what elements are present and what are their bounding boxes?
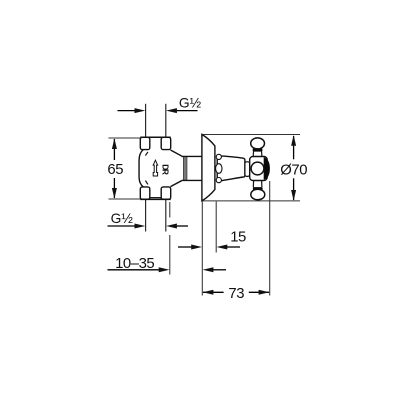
extension line wall face (201, 202, 203, 296)
dimension G1/2 bottom (108, 211, 189, 228)
svg-text:G½: G½ (111, 211, 134, 226)
pipe bottom right line (165, 199, 167, 231)
extension line dia70 top (203, 134, 300, 136)
collar ring (245, 162, 250, 177)
bottom neck band (black) (253, 187, 263, 190)
stem bottom edge (181, 179, 202, 181)
top port left tab (140, 137, 150, 149)
body chamfer tick top (145, 152, 148, 156)
top ball (251, 138, 265, 149)
escutcheon (202, 134, 215, 201)
svg-text:73: 73 (228, 286, 244, 302)
bottom port right tab (161, 187, 171, 199)
svg-text:10–35: 10–35 (115, 256, 154, 272)
body chamfer tick bottom (145, 181, 148, 185)
dimension 73 (203, 286, 270, 302)
dimension G1/2 top (118, 95, 202, 113)
pipe bottom left line (145, 199, 147, 231)
body right bottom slant (171, 180, 182, 186)
flow arrow inside body (153, 160, 157, 176)
bottom port bottom edge (140, 198, 170, 200)
stem top edge (181, 155, 202, 157)
extension line 73 right (269, 181, 271, 296)
bottom neck sides (252, 181, 254, 188)
dimension 65 (107, 138, 123, 199)
bottom ball (251, 189, 265, 200)
extension line 65 bottom (109, 198, 141, 200)
top neck band (black) (253, 148, 263, 152)
cone screw top (216, 154, 221, 159)
handle cone (217, 156, 245, 181)
extension line 65 top (109, 137, 141, 139)
dimension 15 (178, 230, 246, 250)
cone screw bottom (216, 178, 221, 183)
dimension dia70 (280, 135, 307, 201)
extension line 15 right (215, 202, 217, 253)
svg-text:15: 15 (230, 230, 246, 246)
svg-text:Ø70: Ø70 (280, 163, 307, 179)
dimension 10-35 (108, 256, 227, 272)
bottom port left tab (140, 187, 150, 199)
extension line 10-35 left (169, 202, 171, 275)
hub (250, 157, 268, 181)
handle front cap (black) (264, 157, 270, 179)
svg-text:65: 65 (107, 162, 123, 178)
hub circle (251, 162, 264, 175)
valve body left edge (139, 150, 143, 187)
extension line dia70 bottom (203, 200, 300, 202)
svg-text:DR: DR (161, 164, 170, 175)
top port right tab (161, 137, 171, 149)
top neck sides (252, 152, 254, 157)
body right top slant (171, 150, 182, 156)
cone center oval (216, 164, 222, 174)
pipe top left line (145, 104, 147, 138)
bottom port middle facet line (150, 197, 161, 199)
pipe top right line (165, 104, 167, 138)
stem collar lines (184, 156, 187, 180)
top port top edge (140, 136, 170, 138)
svg-text:G½: G½ (179, 95, 202, 110)
